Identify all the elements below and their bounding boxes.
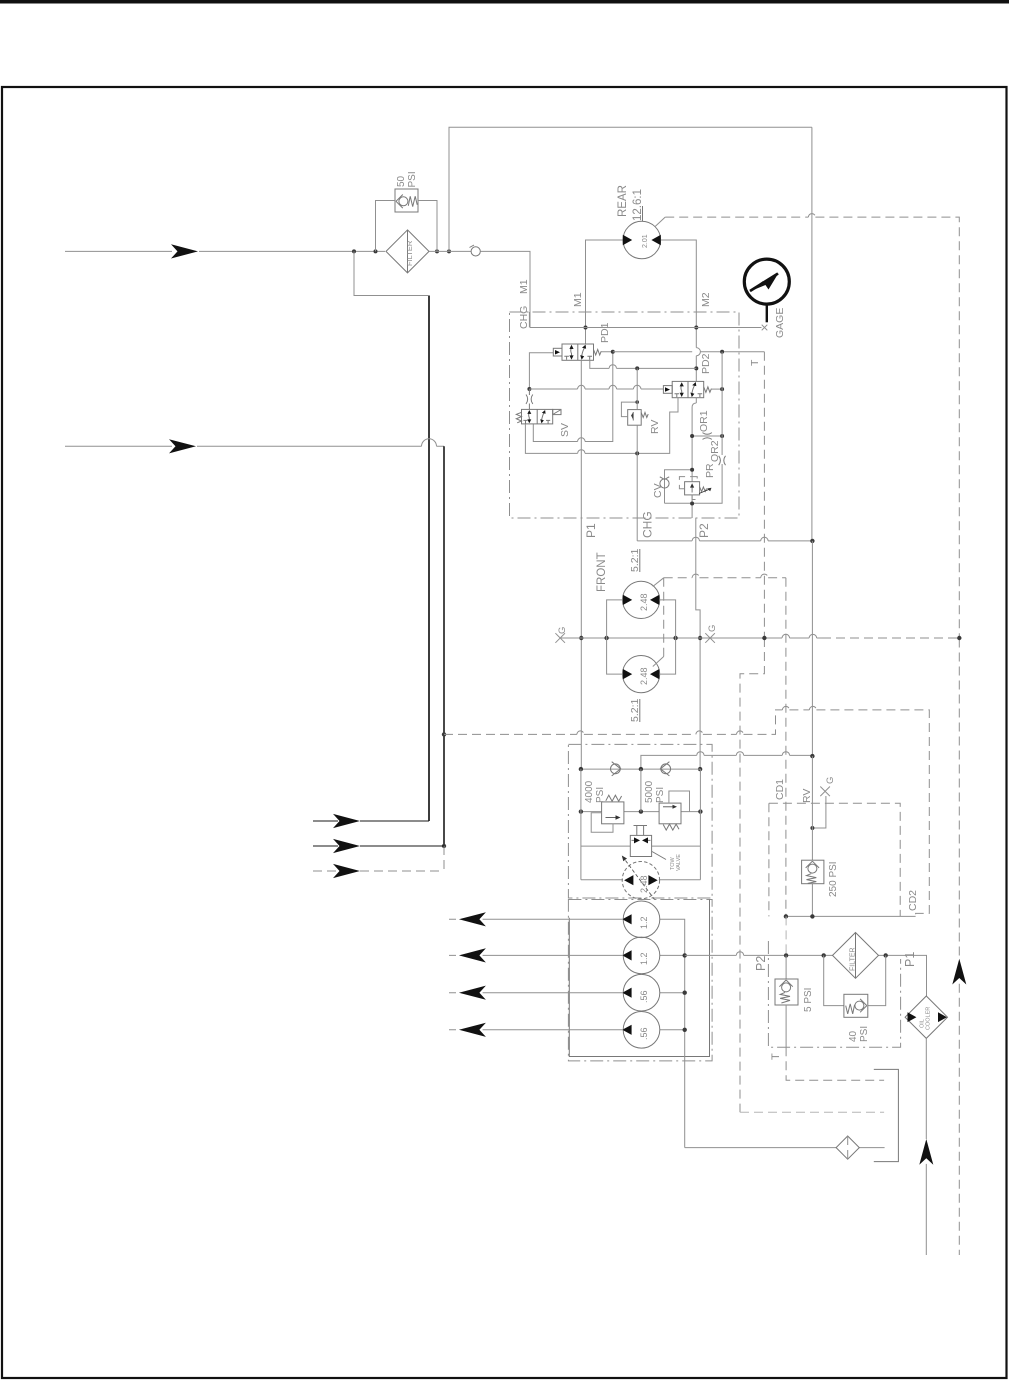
suction bus wire (660, 919, 687, 1147)
4000 PSI label (584, 780, 606, 803)
gear pump .56 second (622, 1012, 660, 1049)
svg-text:CHG M1: CHG M1 (518, 279, 530, 329)
hop of work wire over spring wire (609, 365, 616, 369)
CHG wire into block (528, 312, 531, 328)
svg-text:P2: P2 (697, 523, 711, 538)
CD2 bottom collector wire (784, 914, 916, 918)
motor REAR displacement label 2.01 (642, 234, 649, 248)
PR label (704, 463, 716, 478)
orifice OR2 (719, 456, 726, 465)
T dashed line (740, 352, 764, 1112)
PD1 spring side wire to SV port (533, 352, 613, 442)
return filter label (850, 947, 857, 971)
gear pump 1.2 first (622, 901, 660, 938)
svg-text:RV: RV (801, 789, 813, 803)
hop of SV wire over P1 (578, 438, 585, 442)
outlet wire A (313, 820, 429, 822)
pilot wire to T line (613, 351, 765, 353)
REAR case drain dashed line (665, 217, 959, 637)
motor FRONT 2 circle (623, 656, 660, 693)
relief valve 5000 PSI (659, 803, 681, 824)
4000 PSI pilot loop (591, 813, 613, 833)
T port label manifold (770, 1053, 782, 1060)
svg-text:GAGE: GAGE (774, 308, 786, 338)
junction dot pilot T node (720, 350, 724, 354)
supply inlet wire 2 (65, 445, 444, 447)
RV drain label (801, 789, 813, 803)
front motor loop wires (607, 600, 676, 674)
40 PSI label (848, 1026, 870, 1042)
relief valve 40 PSI (844, 994, 868, 1017)
PR spring with arrow (699, 487, 712, 494)
page top rule (0, 0, 1009, 4)
thick line port B vertical (443, 446, 445, 846)
PD2 spring (704, 387, 712, 393)
relief valve 4000 PSI (602, 802, 624, 824)
PD1 work port wire to M2 (590, 360, 697, 368)
svg-text:M2: M2 (700, 292, 712, 307)
relief bypass wires around filter (376, 201, 438, 252)
svg-text:4000: 4000 (584, 780, 595, 803)
svg-text:5.2:1: 5.2:1 (629, 698, 641, 722)
motor FRONT 2 label 2.48 (639, 667, 649, 685)
junction dot SV drain at CHG (635, 451, 639, 455)
40 PSI bypass wires (824, 955, 886, 1005)
hops on drain dashed line (577, 706, 817, 734)
svg-text:G: G (557, 627, 568, 634)
svg-text:.56: .56 (639, 1027, 649, 1040)
svg-text:T: T (749, 359, 761, 366)
svg-text:CV: CV (652, 483, 664, 498)
pump 2.48 triangles (624, 875, 658, 885)
pump outlet wire 4 (449, 1023, 623, 1037)
svg-text:250 PSI: 250 PSI (828, 861, 839, 897)
wire M1 motor to valve block (586, 240, 623, 344)
tow valve line (581, 845, 701, 847)
gear pump stack inner housing (569, 900, 709, 1057)
gauge test point X (762, 325, 768, 331)
svg-text:CD1: CD1 (774, 779, 786, 800)
GAGE label (774, 308, 786, 338)
svg-text:2.48: 2.48 (639, 667, 649, 685)
svg-text:50: 50 (396, 175, 407, 187)
12.6:1 ratio label underlined (632, 189, 644, 221)
PD2 spring wire to OR line (711, 387, 724, 391)
motor REAR flow triangles (623, 235, 661, 245)
svg-text:PD1: PD1 (599, 322, 611, 343)
solenoid valve PD2 (672, 381, 704, 397)
top loop wire to right side (449, 127, 812, 251)
thick supply drop wire (354, 251, 428, 295)
CD2 dashed enclosure (769, 803, 900, 916)
5.2:1 ratio label bottom underlined (629, 698, 641, 722)
oil cooler diamond (905, 996, 947, 1038)
pump outlet wire 3 (449, 986, 623, 1000)
svg-text:FILTER: FILTER (850, 947, 857, 971)
svg-text:FRONT: FRONT (596, 552, 608, 592)
svg-text:P1: P1 (903, 952, 917, 967)
outlet flow arrow B (333, 839, 360, 853)
return filter diamond (833, 933, 879, 979)
svg-text:PSI: PSI (859, 1026, 870, 1042)
gear pump 1.2 second (622, 937, 660, 974)
svg-text:P2: P2 (754, 956, 768, 971)
junction dots M1 M2 (584, 326, 699, 371)
hop of M2 wire over pilot line (696, 348, 700, 356)
charge loop wire into pump block (641, 541, 815, 769)
REAR case drain diagonal (655, 217, 665, 226)
svg-text:T: T (770, 1053, 782, 1060)
front case drain dashed collector (663, 578, 665, 657)
svg-text:1.2: 1.2 (639, 916, 649, 929)
PD1 label (599, 322, 611, 343)
svg-text:5.2:1: 5.2:1 (629, 548, 641, 572)
charge check row wire (579, 767, 701, 771)
breather diamond (836, 1136, 859, 1159)
svg-text:5000: 5000 (644, 780, 655, 803)
relief valve 50 PSI box (395, 189, 418, 212)
tow valve (630, 826, 651, 857)
svg-text:REAR: REAR (617, 185, 629, 217)
CD1 label (774, 779, 786, 800)
svg-text:G: G (825, 777, 836, 784)
REAR label (617, 185, 629, 217)
motor FRONT 1 circle (623, 581, 660, 618)
P1 port label (584, 523, 598, 538)
supply inlet wire 1 (65, 250, 385, 252)
PD1 solenoid box (553, 348, 562, 356)
5 PSI label (803, 988, 814, 1012)
tank flow arrow on case drain (952, 959, 966, 985)
orifice above SV (526, 389, 533, 409)
svg-text:SV: SV (559, 423, 571, 437)
5000 PSI label (644, 780, 666, 803)
inlet flow arrow 2 (169, 439, 196, 453)
svg-text:CD2: CD2 (907, 890, 919, 911)
50 PSI label (396, 171, 418, 187)
pump 2.48 variable arrow (622, 856, 655, 900)
hops on PD2 pilot line (578, 385, 641, 389)
svg-text:VALVE: VALVE (676, 854, 682, 871)
hop of SV drain over P1 (578, 450, 585, 454)
check valve CV (660, 477, 669, 488)
CD2 label (907, 890, 919, 911)
svg-text:5 PSI: 5 PSI (803, 988, 814, 1012)
relief valve RV (628, 410, 642, 426)
PR dashed pilot box (679, 477, 697, 500)
valve block enclosure dash-dot (510, 312, 740, 518)
svg-text:PD2: PD2 (700, 353, 712, 374)
front motor case drain diagonals (653, 578, 664, 667)
M2 port label (700, 292, 712, 307)
junction dots on supply line (352, 249, 451, 253)
pump outlet wire 2 (449, 948, 623, 962)
SV drain wire grey loop (525, 398, 678, 454)
junction dot pilot node (527, 387, 531, 391)
pump 2.48 circle (622, 862, 659, 899)
svg-text:2.48: 2.48 (639, 875, 649, 893)
tank bracket (874, 1069, 899, 1161)
wire M2 motor to valve block (661, 240, 696, 381)
RV drain wire (811, 756, 813, 916)
hop of case drain over charge loop (808, 214, 815, 217)
pump outlet wire 1 (449, 912, 623, 926)
shuttle valve SV (522, 409, 553, 424)
check valve CV loop (665, 468, 695, 506)
thick main line to port A (428, 296, 430, 822)
CD1 dashed drain line (664, 574, 786, 916)
CD drain into manifold dashed (785, 916, 787, 955)
svg-text:OR1: OR1 (698, 410, 710, 432)
relief valve 250 PSI (802, 860, 824, 884)
outlet dashed drain wire C (313, 870, 444, 872)
pump 2.48 label (639, 875, 649, 893)
relief valve 5 PSI (775, 979, 798, 1005)
5000 PSI spring (663, 824, 679, 830)
svg-text:.56: .56 (639, 990, 649, 1003)
G test point right (705, 625, 718, 643)
orifice OR1 branch (690, 433, 724, 440)
M1 port label (572, 292, 584, 307)
RV label (649, 420, 661, 434)
G gauge line (560, 634, 959, 640)
T dashed line label (749, 359, 761, 366)
drain collection dashed line (444, 710, 929, 917)
RV wires top and bottom (636, 368, 638, 518)
gear pump stack enclosure dash-dot (568, 900, 712, 1061)
svg-text:PSI: PSI (595, 787, 606, 803)
case drain return dashed vertical lower (958, 639, 960, 1256)
svg-text:PSI: PSI (407, 171, 418, 187)
PD1 spring (594, 350, 602, 356)
gauge line wire (530, 327, 762, 329)
FRONT label (596, 552, 608, 592)
return flow arrow up (919, 1139, 933, 1165)
drain collector to tank wire (685, 1147, 885, 1149)
relief row wire (579, 809, 703, 813)
pilot line to PD2 solenoid (529, 388, 663, 390)
P2 port label (697, 523, 711, 538)
pump block enclosure dash-dot (568, 744, 712, 898)
5.2:1 ratio label top underlined (629, 548, 641, 572)
SV pilot tab (553, 409, 561, 414)
outlet wire B (313, 845, 444, 847)
motor FRONT 1 label 2.48 (639, 593, 649, 611)
filter F1 label (405, 240, 414, 266)
junction dot PD1 spring node (611, 350, 615, 354)
dashed tail of port B line (443, 846, 445, 871)
TOW VALVE label with leader (652, 852, 682, 872)
RV spring (641, 413, 648, 418)
junction dots on port B line (442, 732, 446, 848)
P2 line block to pump (696, 518, 703, 771)
RV pilot loop (621, 400, 639, 416)
wire filter to check valve (429, 250, 471, 252)
T drain below manifold dashed (786, 1005, 884, 1080)
OR vertical wire (692, 352, 722, 504)
SV spring left (516, 412, 521, 423)
svg-text:P1: P1 (584, 523, 598, 538)
svg-text:1.2: 1.2 (639, 952, 649, 965)
CHG M1 wire label (518, 279, 530, 329)
wire check valve to CHG drop (480, 251, 530, 327)
P1 manifold label (903, 952, 917, 967)
G test point left (555, 627, 568, 643)
crossover hop on wire 2 (422, 439, 437, 447)
filter F1 diamond (386, 230, 429, 273)
right-side charge loop vertical (811, 127, 813, 541)
svg-text:COOLER: COOLER (926, 1007, 932, 1030)
svg-text:PSI: PSI (655, 787, 666, 803)
suction manifold wire P2-P1 (685, 952, 927, 996)
OR1 label (698, 410, 710, 432)
SV label (559, 423, 571, 437)
P2 manifold label (754, 956, 768, 971)
junction dot RV top node (635, 366, 639, 370)
check valve CV1 (470, 245, 481, 256)
svg-text:G: G (707, 625, 718, 632)
relief valve 5 PSI wire (785, 955, 787, 979)
cooler manifold enclosure dash-dot (768, 941, 900, 1047)
svg-text:OR2: OR2 (709, 440, 721, 462)
pressure gauge dial (744, 259, 789, 322)
svg-text:M1: M1 (572, 292, 584, 307)
PD2 label (700, 353, 712, 374)
svg-text:FILTER: FILTER (405, 240, 414, 266)
250 PSI label (828, 861, 839, 897)
T line tank return dashed (740, 1111, 884, 1113)
junction dot on case drain at G line (957, 636, 961, 640)
PD2 solenoid box (663, 386, 672, 394)
OR2 label (709, 440, 721, 462)
svg-text:RV: RV (649, 420, 661, 434)
motor REAR circle (623, 221, 661, 259)
pump block side wires (581, 769, 701, 880)
solenoid valve PD1 (562, 344, 594, 360)
svg-text:2.01: 2.01 (642, 234, 649, 248)
motor FRONT 1 triangles (623, 595, 659, 605)
charge check valve 2 (660, 762, 670, 776)
wire CHG down to pilot node (529, 353, 553, 389)
charge check valve 1 (611, 762, 621, 776)
OIL COOLER label (920, 1007, 932, 1030)
variable pump row wire (581, 879, 701, 881)
P2 line through block (692, 398, 696, 518)
5000 PSI pilot loop (669, 791, 690, 812)
outlet flow arrow A (333, 814, 360, 828)
pressure reducing valve PR (685, 482, 700, 495)
svg-text:2.48: 2.48 (639, 593, 649, 611)
4000 PSI spring (606, 795, 622, 801)
CV label (652, 483, 664, 498)
svg-text:CHG: CHG (641, 511, 655, 538)
gauge needle (750, 273, 779, 292)
G test point RV (820, 777, 836, 796)
gear pump .56 first (622, 974, 660, 1011)
CHG port label (641, 511, 655, 538)
P1 line block to pump (579, 360, 583, 769)
svg-text:40: 40 (848, 1030, 859, 1042)
oil cooler triangles (908, 1012, 947, 1022)
cooler return wire down (925, 1038, 927, 1255)
G test stub wire (810, 796, 826, 830)
CHG line to charge loop (637, 518, 814, 543)
inlet flow arrow 1 (171, 244, 198, 258)
outlet flow arrow C (333, 864, 360, 878)
svg-text:PR: PR (704, 463, 716, 478)
motor FRONT 2 triangles (623, 669, 659, 679)
